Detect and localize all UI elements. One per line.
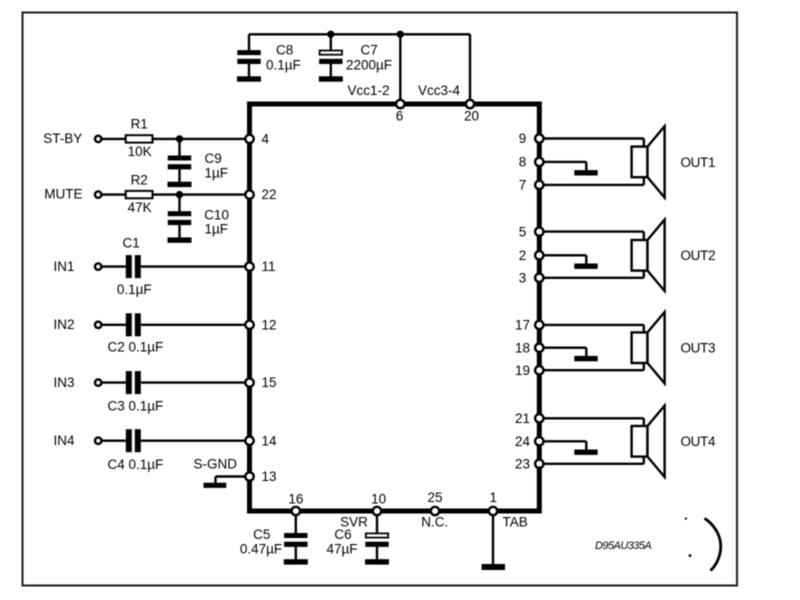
svg-text:21: 21 (515, 411, 530, 426)
svg-text:17: 17 (515, 318, 530, 333)
svg-text:Vcc1-2: Vcc1-2 (348, 83, 390, 98)
svg-text:C3 0.1µF: C3 0.1µF (108, 399, 164, 414)
svg-text:IN4: IN4 (53, 433, 75, 448)
svg-text:4: 4 (262, 132, 270, 147)
svg-text:15: 15 (262, 375, 277, 390)
svg-text:7: 7 (519, 178, 527, 193)
svg-text:1µF: 1µF (205, 221, 229, 236)
svg-text:C1: C1 (123, 235, 140, 250)
svg-text:OUT4: OUT4 (681, 434, 716, 449)
svg-text:18: 18 (515, 340, 530, 355)
svg-text:0.1µF: 0.1µF (266, 58, 301, 73)
svg-text:20: 20 (464, 109, 479, 124)
svg-text:24: 24 (515, 434, 531, 449)
svg-text:25: 25 (427, 490, 442, 505)
svg-text:OUT2: OUT2 (681, 248, 716, 263)
svg-text:C5: C5 (253, 527, 270, 542)
svg-text:9: 9 (519, 131, 527, 146)
svg-text:10: 10 (371, 491, 386, 506)
svg-text:IN3: IN3 (53, 375, 74, 390)
svg-text:11: 11 (262, 259, 276, 274)
svg-text:5: 5 (519, 224, 527, 239)
svg-text:0.1µF: 0.1µF (117, 282, 152, 297)
svg-text:2200µF: 2200µF (346, 58, 392, 73)
svg-text:47µF: 47µF (326, 541, 357, 556)
svg-text:IN1: IN1 (53, 259, 74, 274)
svg-text:1µF: 1µF (205, 165, 229, 180)
svg-text:13: 13 (262, 469, 277, 484)
svg-text:19: 19 (515, 363, 530, 378)
svg-text:C9: C9 (205, 151, 222, 166)
svg-text:47K: 47K (128, 200, 152, 215)
svg-text:D95AU335A: D95AU335A (595, 540, 651, 552)
svg-text:2: 2 (519, 248, 527, 263)
svg-text:R2: R2 (131, 172, 148, 187)
svg-text:Vcc3-4: Vcc3-4 (418, 83, 461, 98)
svg-text:C10: C10 (204, 207, 229, 222)
svg-text:3: 3 (519, 271, 527, 286)
svg-text:C4 0.1µF: C4 0.1µF (108, 457, 164, 472)
svg-text:10K: 10K (128, 144, 152, 159)
svg-text:6: 6 (396, 109, 404, 124)
svg-text:1: 1 (490, 490, 498, 505)
svg-text:12: 12 (262, 317, 277, 332)
svg-text:C6: C6 (334, 527, 351, 542)
svg-text:22: 22 (262, 187, 277, 202)
svg-text:C7: C7 (361, 43, 378, 58)
svg-text:14: 14 (262, 433, 278, 448)
svg-text:OUT1: OUT1 (681, 155, 716, 170)
svg-text:C8: C8 (276, 43, 293, 58)
svg-text:R1: R1 (131, 117, 148, 132)
svg-text:16: 16 (288, 491, 303, 506)
svg-text:MUTE: MUTE (44, 187, 82, 202)
svg-text:C2 0.1µF: C2 0.1µF (108, 340, 164, 355)
svg-text:IN2: IN2 (53, 317, 74, 332)
svg-text:S-GND: S-GND (194, 456, 238, 471)
svg-text:TAB: TAB (503, 515, 528, 530)
svg-text:23: 23 (515, 457, 530, 472)
svg-text:N.C.: N.C. (421, 515, 448, 530)
svg-text:0.47µF: 0.47µF (240, 541, 282, 556)
svg-text:ST-BY: ST-BY (43, 131, 82, 146)
svg-text:8: 8 (519, 155, 527, 170)
svg-text:OUT3: OUT3 (681, 341, 716, 356)
